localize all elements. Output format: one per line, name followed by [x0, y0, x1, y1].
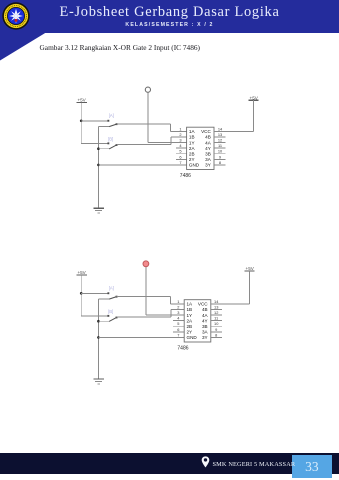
wire: +5V to switch B throw [81, 315, 108, 317]
svg-text:[B]: [B] [108, 137, 113, 142]
header title [0, 4, 339, 21]
node: junction ground rail / GND pin wire [97, 336, 100, 339]
pin numbers 14-8 (right) [218, 126, 223, 165]
pin 6 stub [173, 331, 184, 333]
pin 11 stub [211, 320, 222, 322]
pin 5 stub [173, 325, 184, 327]
probe X1 (lamp ON, red) [143, 261, 149, 267]
wire: ground rail vertical [97, 299, 99, 379]
pin 4 stub [173, 320, 184, 322]
switch J1 key A (blade) [109, 123, 117, 126]
node: junction +5V rail to switch A [80, 292, 83, 295]
power +5V supply (right) [248, 95, 258, 100]
svg-text:GND: GND [187, 335, 198, 340]
svg-text:+5V: +5V [250, 95, 259, 100]
footer school name [213, 461, 296, 468]
wire: left +5V rail [80, 275, 82, 316]
svg-text:13: 13 [218, 132, 222, 137]
school logo badge [2, 2, 30, 30]
wire: +5V to IC pin 14 VCC [211, 271, 250, 304]
wire: switch B to IC pin 2 (1B) [117, 309, 185, 317]
svg-text:14: 14 [214, 299, 219, 304]
svg-text:3: 3 [179, 138, 181, 143]
svg-text:VCC: VCC [201, 129, 211, 134]
wire: +5V to switch A throw [81, 292, 108, 294]
wire: +5V to IC pin 14 VCC [214, 100, 253, 131]
svg-text:9: 9 [215, 327, 217, 332]
header band [0, 0, 339, 33]
svg-text:7: 7 [177, 332, 179, 337]
wire: ground rail to IC pin 7 GND [98, 164, 186, 166]
svg-text:1Y: 1Y [189, 140, 195, 145]
svg-text:VCC: VCC [198, 302, 208, 307]
pin 10 stub [211, 325, 222, 327]
svg-text:4A: 4A [202, 313, 209, 318]
svg-text:2: 2 [179, 132, 181, 137]
svg-text:9: 9 [219, 154, 221, 159]
svg-text:GND: GND [189, 163, 200, 168]
wire: ground rail to switch A pivot [98, 298, 109, 300]
switch J2 key B (blade) [109, 317, 117, 322]
svg-text:5: 5 [179, 149, 181, 154]
svg-text:10: 10 [214, 321, 219, 326]
pin numbers 14-8 (right) [214, 299, 219, 338]
svg-text:4Y: 4Y [202, 318, 208, 323]
wire: +5V to switch B throw [81, 142, 108, 144]
footer page number box [292, 455, 333, 478]
wire: left +5V rail [80, 102, 82, 143]
wire: ground rail to switch B pivot [98, 148, 109, 150]
svg-text:7486: 7486 [180, 173, 191, 179]
wire: switch A to IC pin 1 (1A) [117, 296, 185, 303]
pin 9 stub [214, 158, 226, 160]
pin 5 stub [176, 153, 186, 155]
wire: switch A to IC pin 1 (1A) [117, 124, 187, 131]
svg-text:1: 1 [177, 299, 179, 304]
svg-text:11: 11 [218, 143, 222, 148]
svg-text:3A: 3A [205, 157, 212, 162]
svg-text:8: 8 [219, 160, 221, 165]
svg-text:7: 7 [179, 160, 181, 165]
IC pin name labels [189, 129, 212, 168]
power +5V supply (left) U1 [76, 98, 87, 103]
op IC U2 7486 quad XOR (DIP-14 box) [184, 300, 211, 342]
svg-text:[A]: [A] [109, 286, 114, 291]
svg-text:2A: 2A [187, 318, 194, 323]
svg-text:6: 6 [177, 327, 179, 332]
footer location pin icon [201, 456, 210, 468]
svg-text:1B: 1B [187, 307, 193, 312]
wire: +5V to switch A throw [81, 120, 108, 122]
pin 13 stub [211, 308, 222, 310]
svg-text:4Y: 4Y [205, 146, 211, 151]
svg-text:12: 12 [218, 138, 222, 143]
svg-text:5: 5 [177, 321, 179, 326]
pin 12 stub [214, 142, 226, 144]
svg-text:2B: 2B [187, 324, 193, 329]
svg-text:14: 14 [218, 126, 223, 131]
svg-text:4B: 4B [205, 135, 211, 140]
pin 12 stub [211, 314, 222, 316]
caption: Gambar 3.12 [40, 43, 201, 52]
svg-text:+5V: +5V [246, 266, 255, 271]
power +5V supply (left) U2 [76, 270, 87, 275]
svg-text:1Y: 1Y [187, 313, 193, 318]
svg-text:2Y: 2Y [189, 157, 195, 162]
svg-text:2Y: 2Y [187, 330, 193, 335]
svg-text:8: 8 [215, 332, 217, 337]
svg-text:10: 10 [218, 149, 223, 154]
svg-text:4: 4 [177, 316, 180, 321]
wire: ground rail to switch A pivot [98, 125, 109, 127]
svg-text:2A: 2A [189, 146, 196, 151]
svg-text:3B: 3B [205, 152, 211, 157]
svg-text:1: 1 [179, 126, 181, 131]
pin 11 stub [214, 147, 226, 149]
svg-text:1B: 1B [189, 135, 195, 140]
svg-text:4A: 4A [205, 140, 212, 145]
wire: ground rail to IC pin 7 GND [98, 336, 184, 338]
svg-text:3Y: 3Y [202, 335, 208, 340]
wire: ground rail to switch B pivot [98, 320, 109, 322]
svg-text:4: 4 [179, 143, 182, 148]
svg-text:[A]: [A] [109, 113, 114, 118]
wire: probe to IC pin 3 (1Y) [146, 267, 184, 315]
svg-text:2B: 2B [189, 152, 195, 157]
ground [93, 208, 104, 213]
pin numbers 1-7 (left) [179, 126, 182, 165]
pin 8 stub [211, 336, 222, 338]
probe X1 (terminal, open circle) [145, 87, 150, 92]
switch J2 key B (blade) [109, 144, 117, 149]
header subtitle [0, 22, 339, 28]
wire: switch B to IC pin 2 (1B) [117, 137, 187, 145]
svg-text:3Y: 3Y [205, 163, 211, 168]
svg-text:12: 12 [214, 310, 218, 315]
svg-text:4B: 4B [202, 307, 208, 312]
switch J1 key A (blade) [109, 296, 117, 299]
pin 4 stub [176, 147, 186, 149]
node: junction ground rail / switch B pivot [97, 320, 100, 323]
power +5V supply (right) [244, 266, 254, 271]
svg-text:3B: 3B [202, 324, 208, 329]
wire: probe to IC pin 3 (1Y) [148, 92, 187, 142]
pin numbers 1-7 (left) [177, 299, 180, 338]
op IC U1 7486 quad XOR (DIP-14 box) [187, 127, 214, 169]
header wedge [0, 33, 46, 61]
pin 8 stub [214, 164, 226, 166]
pin 10 stub [214, 153, 226, 155]
svg-text:2: 2 [177, 304, 179, 309]
svg-text:1A: 1A [187, 302, 194, 307]
svg-text:[B]: [B] [108, 309, 113, 314]
node: junction +5V rail to switch A [80, 120, 83, 123]
svg-text:7486: 7486 [177, 345, 188, 351]
pin 6 stub [176, 158, 186, 160]
node: junction ground rail / switch B pivot [97, 147, 100, 150]
wire: ground rail vertical [97, 126, 99, 207]
svg-text:3A: 3A [202, 330, 209, 335]
node: junction ground rail / GND pin wire [97, 164, 100, 167]
IC pin name labels [187, 302, 209, 341]
footer bar [0, 453, 339, 474]
pin 13 stub [214, 136, 226, 138]
svg-text:1A: 1A [189, 129, 196, 134]
svg-text:3: 3 [177, 310, 179, 315]
pin 9 stub [211, 331, 222, 333]
svg-text:11: 11 [214, 316, 218, 321]
svg-text:13: 13 [214, 304, 218, 309]
svg-text:6: 6 [179, 154, 181, 159]
ground [93, 379, 104, 384]
